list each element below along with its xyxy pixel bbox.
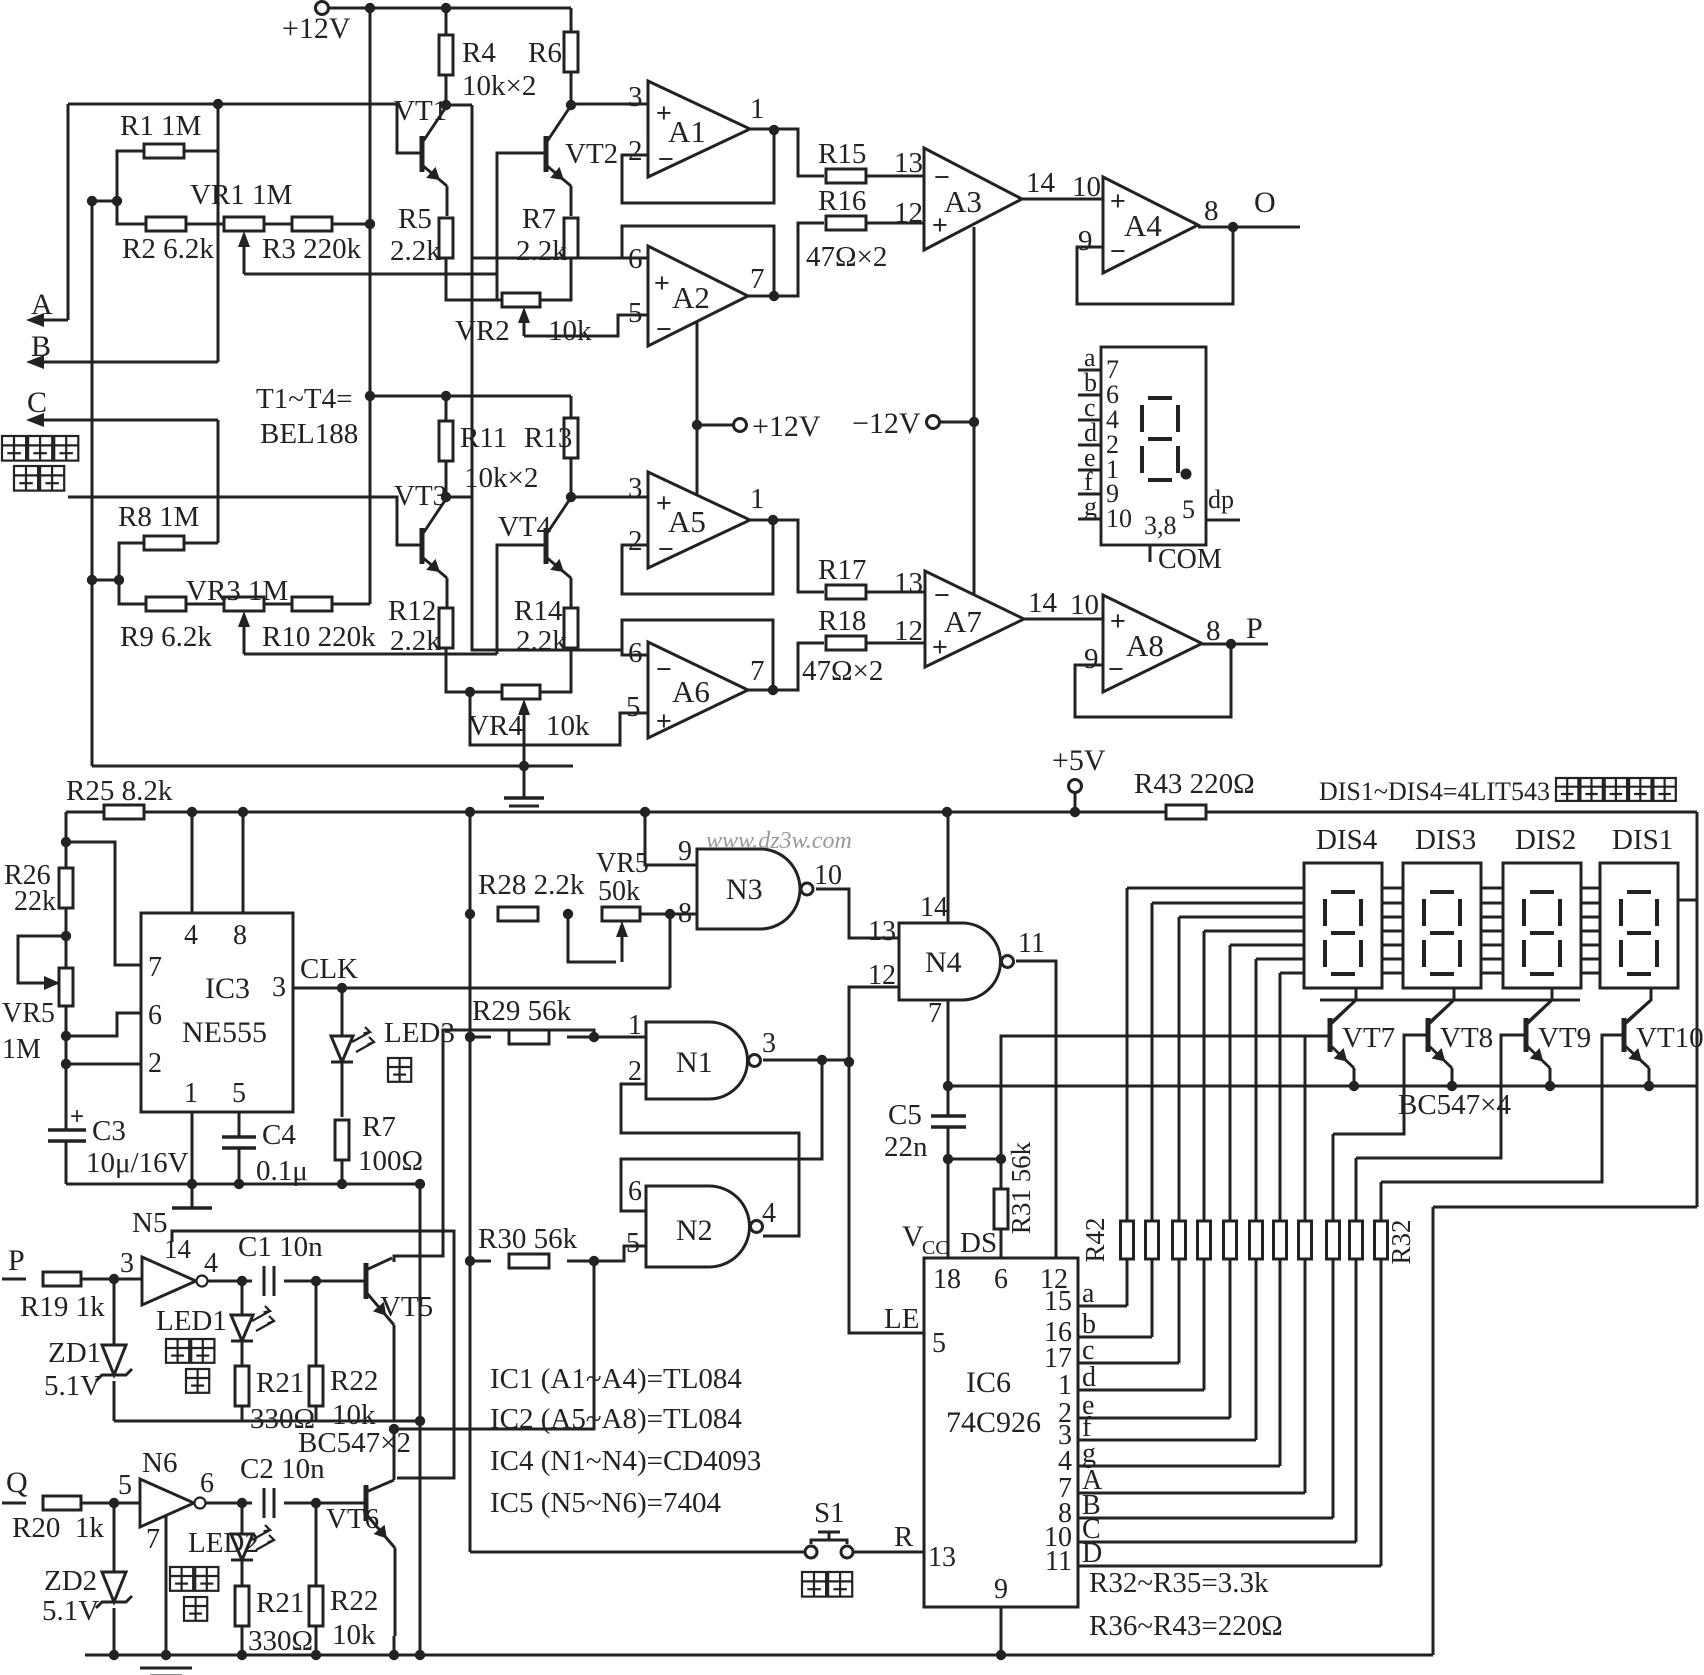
- wire segment col x1230: [1229, 945, 1232, 1221]
- resistor bank col 8: [1299, 1221, 1312, 1259]
- svg-text:+: +: [656, 706, 672, 736]
- junction R28 right: [563, 909, 573, 919]
- svg-text:N3: N3: [726, 873, 763, 906]
- wire VT5 emitter down: [393, 1412, 396, 1421]
- wire VT7 emitter stub: [1353, 1068, 1356, 1086]
- op-amp A3: [924, 148, 1022, 250]
- svg-text:A5: A5: [668, 504, 706, 539]
- svg-text:−: −: [1108, 654, 1124, 684]
- svg-text:2.2k: 2.2k: [390, 625, 441, 657]
- wire N5a out to C1: [208, 1280, 252, 1283]
- wire IC6 e row: [1078, 1417, 1230, 1420]
- wire IC6 d row: [1078, 1389, 1204, 1392]
- svg-text:1: 1: [1058, 1370, 1072, 1401]
- wire R8 left: [119, 543, 144, 580]
- resistor bank col 6: [1250, 1221, 1263, 1259]
- svg-text:R36~R43=220Ω: R36~R43=220Ω: [1089, 1610, 1283, 1642]
- svg-text:1: 1: [184, 1078, 198, 1109]
- wire C column x218: [217, 420, 220, 543]
- wire LED2 to R21b: [241, 1560, 244, 1586]
- wire N2 pin6 from N1 out: [621, 1060, 822, 1211]
- capacitor C4: [222, 1137, 256, 1148]
- wire IC6 f row: [1078, 1439, 1256, 1442]
- svg-text:IC6: IC6: [966, 1366, 1011, 1399]
- svg-text:8: 8: [233, 920, 247, 951]
- wire R row S1 to IC6: [851, 1551, 924, 1554]
- NAND gate N3: [697, 849, 800, 929]
- svg-text:VT8: VT8: [1440, 1022, 1493, 1054]
- wire x472 continuation: [471, 258, 474, 497]
- wire N6 pin7 gnd: [165, 1516, 168, 1655]
- transistor VT7: [1328, 1018, 1333, 1052]
- VR5 wiper arrow: [40, 982, 58, 985]
- terminal +5V: [1069, 780, 1082, 793]
- svg-text:C2 10n: C2 10n: [240, 1453, 325, 1485]
- wire R32 drop: [1432, 1207, 1435, 1655]
- resistor bank col 11: [1375, 1221, 1388, 1259]
- svg-text:VT7: VT7: [1342, 1022, 1395, 1054]
- resistor R43: [1166, 805, 1206, 819]
- svg-text:10: 10: [814, 860, 842, 891]
- wire R11 bottom: [445, 461, 448, 497]
- ground symbol bridge: [504, 796, 544, 799]
- wire R6 top: [570, 8, 573, 32]
- junction g3: [337, 1179, 347, 1189]
- wire R19 to node: [82, 1278, 142, 1281]
- svg-text:5.1V: 5.1V: [44, 1370, 101, 1402]
- svg-text:2: 2: [628, 525, 643, 557]
- capacitor C2: [264, 1488, 274, 1518]
- wire +12V vertical distribution x368: [369, 8, 372, 604]
- wire col down D: [1380, 1259, 1383, 1566]
- wire NE555 gnd drop: [419, 1184, 422, 1655]
- svg-text:R20 1k: R20 1k: [12, 1512, 104, 1544]
- wire VT5 collector riser: [394, 1030, 594, 1262]
- wire node to R2: [117, 201, 146, 224]
- junction VT6 collector top: [389, 1424, 399, 1434]
- svg-text:1: 1: [750, 483, 765, 515]
- wire +5V stub: [1074, 792, 1077, 812]
- svg-text:LE: LE: [884, 1303, 919, 1335]
- svg-text:IC2 (A5~A8)=TL084: IC2 (A5~A8)=TL084: [490, 1403, 742, 1435]
- op-amp A2: [648, 246, 748, 346]
- svg-text:a: a: [1082, 1278, 1095, 1309]
- svg-text:R21: R21: [256, 1587, 304, 1619]
- wire col down b: [1151, 1259, 1154, 1337]
- resistor R9: [146, 597, 186, 611]
- wire -12V vertical: [973, 227, 976, 595]
- wire A2 out to R16: [748, 223, 824, 296]
- junction pin2 node: [61, 1059, 71, 1069]
- svg-text:13: 13: [868, 916, 896, 947]
- wire bridge2 top rail y396: [370, 395, 571, 398]
- ground bar N5: [172, 1206, 212, 1209]
- wire IC6 g row: [1078, 1465, 1280, 1468]
- resistor R5: [439, 218, 453, 258]
- resistor R3: [292, 217, 332, 231]
- wire col A up: [1304, 1036, 1307, 1221]
- svg-text:2: 2: [148, 1048, 162, 1079]
- svg-text:T1~T4=: T1~T4=: [256, 383, 352, 415]
- wire LED1 to R21: [241, 1341, 244, 1366]
- wire VT6 collector riser: [394, 1261, 594, 1429]
- wire P in: [2, 1278, 26, 1281]
- wire N1 pin2 from N2 out: [621, 1084, 799, 1236]
- wire VT6 emitter vertical: [394, 1548, 397, 1636]
- junction A5 out: [768, 515, 778, 525]
- svg-text:COM: COM: [1158, 544, 1222, 575]
- junction pin6 node: [61, 1031, 71, 1041]
- svg-text:18: 18: [933, 1264, 961, 1295]
- wire pin7 branch: [66, 842, 141, 965]
- wire R22a top: [315, 1281, 318, 1366]
- svg-text:R3 220k: R3 220k: [262, 233, 362, 265]
- wire +5V column x470: [469, 812, 472, 1552]
- junction rail r21b: [237, 1650, 247, 1660]
- wire col down d: [1203, 1259, 1206, 1390]
- svg-text:2.2k: 2.2k: [516, 625, 567, 657]
- wire C5 down: [947, 1127, 950, 1159]
- svg-text:7: 7: [750, 263, 765, 295]
- svg-text:1M: 1M: [2, 1034, 41, 1065]
- svg-text:R32: R32: [1386, 1219, 1416, 1264]
- wire bus dp line: [1320, 999, 1580, 1002]
- svg-text:11: 11: [1045, 1546, 1072, 1577]
- op-amp A7: [925, 571, 1024, 667]
- junction C5 bottom: [943, 1154, 953, 1164]
- svg-text:VR5: VR5: [596, 848, 649, 879]
- potentiometer VR3: [224, 597, 264, 611]
- wire C base route: [1356, 1035, 1526, 1158]
- capacitor C1: [264, 1266, 274, 1296]
- svg-text:3: 3: [272, 972, 286, 1003]
- svg-text:3: 3: [762, 1028, 776, 1059]
- wire pin5 down: [238, 1112, 241, 1137]
- arrow A: [40, 319, 68, 322]
- resistor R17: [826, 585, 866, 599]
- svg-text:R16: R16: [818, 185, 866, 217]
- label sensor probe: [2, 436, 26, 461]
- wire VR4 wiper to ground: [523, 730, 526, 766]
- svg-text:VR4: VR4: [468, 710, 523, 742]
- svg-text:R25 8.2k: R25 8.2k: [66, 775, 173, 807]
- wire R29 row: [470, 1036, 491, 1039]
- svg-text:50k: 50k: [598, 876, 640, 907]
- display DIS1: [1600, 863, 1678, 988]
- svg-text:P: P: [8, 1244, 25, 1277]
- wire bus y931: [1204, 930, 1600, 933]
- svg-text:12: 12: [894, 615, 923, 647]
- wire VT3 collector drop to A6 pin6: [472, 497, 622, 650]
- wire bus y888: [1127, 887, 1600, 890]
- wire D base route: [1381, 1035, 1626, 1182]
- LED LED3: [331, 1036, 353, 1062]
- junction R31 top: [996, 1154, 1006, 1164]
- svg-text:DIS2: DIS2: [1515, 824, 1576, 856]
- transistor VT5: [364, 1263, 369, 1299]
- svg-text:9: 9: [1078, 225, 1093, 257]
- svg-text:9: 9: [994, 1574, 1008, 1605]
- junction +12V mid: [692, 420, 702, 430]
- wire segment col x1280: [1279, 973, 1282, 1221]
- wire col down e: [1229, 1259, 1232, 1418]
- wire VT1 emitter to R5: [446, 186, 449, 216]
- svg-text:5: 5: [626, 691, 641, 723]
- svg-text:A2: A2: [672, 280, 710, 315]
- svg-text:A1: A1: [668, 114, 706, 149]
- wire IC6 B row: [1078, 1517, 1333, 1520]
- svg-text:R12: R12: [388, 595, 436, 627]
- display pinout box: [1101, 347, 1206, 545]
- junction bridge2 rail x446: [441, 391, 451, 401]
- svg-text:CC: CC: [922, 1237, 949, 1259]
- svg-text:A3: A3: [944, 184, 982, 219]
- wire R16 to A3 pin12: [866, 222, 924, 225]
- svg-text:0.1μ: 0.1μ: [256, 1155, 308, 1187]
- svg-text:www.dz3w.com: www.dz3w.com: [706, 828, 852, 854]
- svg-text:22k: 22k: [14, 886, 56, 917]
- resistor bank col 2: [1146, 1221, 1159, 1259]
- wire R28-VR5 bypass: [568, 914, 616, 962]
- svg-text:2.2k: 2.2k: [390, 235, 441, 267]
- wire VR5b to N3 pin8: [640, 913, 697, 916]
- junction +12V bridge2 top: [365, 391, 375, 401]
- svg-text:10: 10: [1072, 171, 1101, 203]
- junction LED2 top: [237, 1498, 247, 1508]
- svg-text:10μ/16V: 10μ/16V: [86, 1147, 189, 1179]
- wire col down c: [1178, 1259, 1181, 1363]
- svg-text:14: 14: [920, 892, 948, 923]
- svg-text:8: 8: [678, 898, 692, 929]
- label green: [388, 1058, 411, 1082]
- wire VT9 emitter stub: [1549, 1068, 1552, 1086]
- wire segment col x1152: [1151, 903, 1154, 1221]
- wire R31 to DS: [1000, 1229, 1003, 1258]
- wire bus y917: [1179, 916, 1600, 919]
- wire col down A: [1304, 1259, 1307, 1493]
- svg-text:2.2k: 2.2k: [516, 235, 567, 267]
- svg-text:VT9: VT9: [1538, 1022, 1591, 1054]
- junction LED1 top: [237, 1276, 247, 1286]
- VR4 wiper arrow: [523, 711, 526, 730]
- resistor R12: [439, 608, 453, 648]
- wire R29 to N1 pin1: [567, 1036, 646, 1039]
- wire VT6 emitter down: [393, 1636, 396, 1655]
- junction pin9 gnd: [996, 1650, 1006, 1660]
- svg-text:C3: C3: [92, 1115, 126, 1147]
- wire R14 bottom to VR4 row: [540, 648, 571, 692]
- wire R7b down: [341, 1160, 344, 1184]
- junction ZD2 gnd: [109, 1650, 119, 1660]
- wire R22a down: [315, 1406, 318, 1421]
- svg-text:10k: 10k: [546, 710, 590, 742]
- wire N4 pin12 LE column: [849, 987, 924, 1333]
- junction C2 node: [311, 1498, 321, 1508]
- wire N4 out to IC6 pin12: [1016, 961, 1056, 1258]
- wire pin2: [66, 1063, 141, 1066]
- svg-text:R29 56k: R29 56k: [472, 995, 572, 1027]
- wire VT4 emitter to R14: [570, 578, 573, 608]
- junction rail x243: [238, 807, 248, 817]
- junction R30 left: [465, 1256, 475, 1266]
- wire R10 right: [332, 603, 370, 606]
- wire VT7 collector from display: [1332, 988, 1356, 1022]
- svg-text:VT5: VT5: [380, 1291, 433, 1323]
- wire A1 out to R15: [750, 129, 824, 176]
- junction node R2 left: [112, 196, 122, 206]
- svg-text:13: 13: [894, 147, 923, 179]
- resistor R28: [498, 907, 538, 921]
- resistor R22b: [309, 1586, 323, 1626]
- junction N6 gnd: [161, 1650, 171, 1660]
- wire VR1 wiper row to VT2 base: [244, 273, 497, 276]
- junction VT4 collector: [566, 492, 576, 502]
- resistor bank col 3: [1173, 1221, 1186, 1259]
- svg-text:IC5 (N5~N6)=7404: IC5 (N5~N6)=7404: [490, 1487, 721, 1519]
- svg-text:N6: N6: [142, 1447, 177, 1479]
- op-amp A8: [1103, 595, 1202, 692]
- svg-text:D: D: [1082, 1538, 1102, 1569]
- VR5b wiper arrow: [621, 933, 624, 962]
- wire col down a: [1126, 1259, 1129, 1306]
- resistor R18: [826, 636, 866, 650]
- svg-text:CLK: CLK: [300, 953, 358, 985]
- zener ZD2: [102, 1572, 126, 1602]
- wire pin6: [66, 1013, 141, 1036]
- wire node A row y104: [68, 104, 422, 153]
- wire VR5 bypass: [18, 936, 66, 983]
- inverter N5a: [142, 1257, 196, 1305]
- svg-text:R14: R14: [514, 595, 563, 627]
- svg-text:IC1 (A1~A4)=TL084: IC1 (A1~A4)=TL084: [490, 1363, 742, 1395]
- wire IC6 A row: [1078, 1492, 1305, 1495]
- wire +5V rail: [66, 811, 104, 814]
- svg-text:A8: A8: [1126, 628, 1164, 663]
- wire VT3 emitter to R12: [446, 578, 449, 608]
- junction P node: [109, 1274, 119, 1284]
- svg-text:R10 220k: R10 220k: [262, 621, 376, 653]
- wire A7 out to A8: [1024, 618, 1103, 621]
- wire LED3 top: [341, 988, 344, 1036]
- wire N3 out to N4 pin13: [816, 889, 899, 938]
- svg-text:+12V: +12V: [752, 410, 821, 443]
- resistor R29: [509, 1030, 549, 1044]
- svg-text:2: 2: [628, 135, 643, 167]
- svg-text:DIS1: DIS1: [1612, 824, 1673, 856]
- NE555 box IC3: [141, 913, 293, 1112]
- junction VR5 top: [61, 931, 71, 941]
- svg-text:5: 5: [1182, 495, 1195, 524]
- svg-text:LED1: LED1: [156, 1305, 227, 1337]
- svg-text:VT1: VT1: [394, 95, 447, 127]
- wire pin1 down: [191, 1112, 194, 1184]
- wire R32 ground route: [1433, 1206, 1697, 1209]
- display COM stub: [1149, 545, 1152, 562]
- junction y104 x218: [213, 99, 223, 109]
- svg-text:14: 14: [1028, 587, 1058, 619]
- svg-text:2: 2: [628, 1056, 642, 1087]
- svg-text:BC547×4: BC547×4: [1398, 1089, 1512, 1121]
- transistor VT9: [1524, 1018, 1529, 1052]
- wire col down g: [1279, 1259, 1282, 1466]
- svg-text:10: 10: [1106, 504, 1132, 533]
- svg-text:47Ω×2: 47Ω×2: [806, 241, 887, 273]
- wire R4 bottom to VT1 collector: [445, 75, 448, 105]
- svg-text:7: 7: [750, 655, 765, 687]
- svg-text:1: 1: [628, 1010, 642, 1041]
- svg-text:6: 6: [628, 1176, 642, 1207]
- junction LE N1out: [844, 1057, 854, 1067]
- wire VT8 collector from display: [1430, 988, 1454, 1022]
- svg-text:VR1 1M: VR1 1M: [190, 179, 292, 211]
- VR1 wiper arrow: [243, 243, 246, 274]
- junction rail x192: [187, 807, 197, 817]
- junction pin8 CLK riser: [665, 909, 675, 919]
- junction g2: [234, 1179, 244, 1189]
- resistor R13: [564, 418, 578, 458]
- svg-text:N4: N4: [925, 946, 962, 979]
- svg-text:8: 8: [1204, 195, 1219, 227]
- junction x92 y201: [87, 196, 97, 206]
- wire R11 top: [445, 396, 448, 421]
- svg-text:P: P: [1246, 612, 1263, 645]
- svg-text:ZD1: ZD1: [48, 1337, 101, 1369]
- wire R17 to A7 pin13: [866, 591, 925, 594]
- svg-text:IC4 (N1~N4)=CD4093: IC4 (N1~N4)=CD4093: [490, 1445, 761, 1477]
- wire R5 bottom to VR2 row: [446, 258, 503, 300]
- svg-text:5: 5: [626, 1228, 640, 1259]
- svg-text:5: 5: [118, 1470, 132, 1501]
- svg-text:13: 13: [928, 1542, 956, 1573]
- label red: [184, 1597, 207, 1621]
- svg-text:−: −: [656, 654, 672, 684]
- svg-text:R42: R42: [1080, 1217, 1110, 1262]
- junction VT8 emitter: [1447, 1081, 1457, 1091]
- junction VT9 emitter: [1545, 1081, 1555, 1091]
- wire R12 bottom to VR4 row: [446, 648, 503, 692]
- svg-text:5.1V: 5.1V: [42, 1595, 99, 1627]
- wire C1 to base: [284, 1280, 366, 1283]
- wire R9 to VR3: [186, 603, 224, 606]
- display DIS2: [1503, 863, 1581, 988]
- junction -12V: [969, 417, 979, 427]
- junction N1 out: [817, 1055, 827, 1065]
- wire VR4 left to A6 pin5: [470, 692, 648, 745]
- resistor R11: [439, 421, 453, 461]
- wire R21a down: [241, 1406, 244, 1421]
- svg-text:10k: 10k: [548, 315, 592, 347]
- wire N6 out to C2: [206, 1502, 252, 1505]
- wire N5a pin14: [172, 1231, 454, 1478]
- resistor R2: [146, 217, 186, 231]
- wire A1 pin3 from VT2 collector: [571, 103, 648, 106]
- svg-text:R28 2.2k: R28 2.2k: [478, 869, 585, 901]
- resistor R10: [292, 597, 332, 611]
- svg-text:R21: R21: [256, 1367, 304, 1399]
- wire ZD1 column: [113, 1279, 116, 1345]
- wire VT1 collector drop to A2 pin6: [472, 105, 622, 258]
- junction R28 left: [465, 909, 475, 919]
- wire N4 pin14: [947, 812, 950, 923]
- resistor R22a: [309, 1366, 323, 1406]
- wire R1 left: [117, 151, 144, 201]
- resistor R19: [43, 1272, 81, 1286]
- wire R22b top: [315, 1503, 318, 1586]
- wire R2 to VR1: [186, 223, 224, 226]
- junction R30 right: [589, 1256, 599, 1266]
- wire A column: [67, 104, 70, 320]
- svg-text:R13: R13: [524, 422, 572, 454]
